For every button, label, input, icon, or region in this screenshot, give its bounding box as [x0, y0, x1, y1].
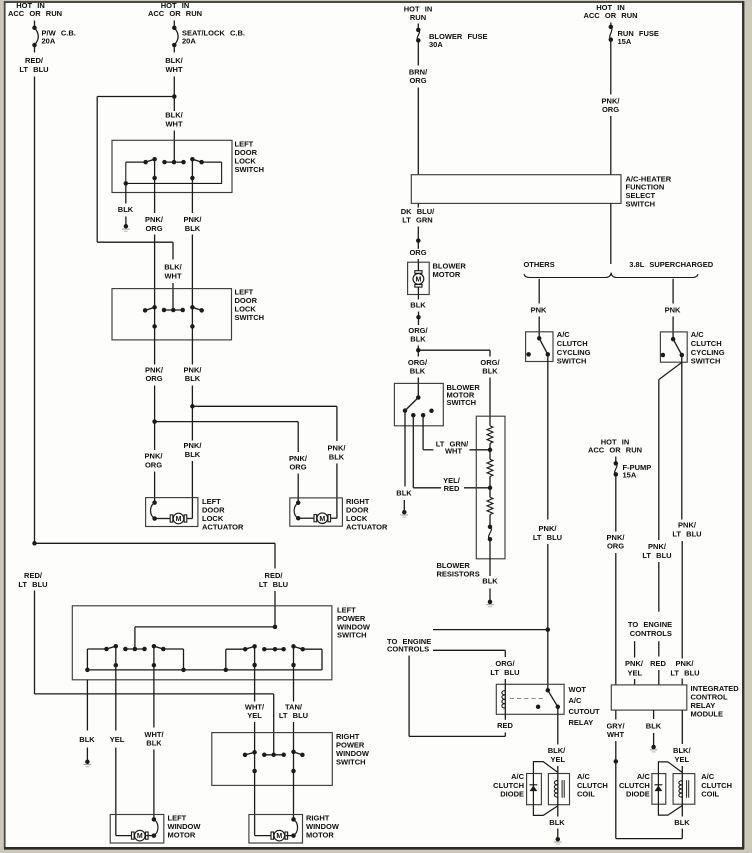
svg-text:LT BLU: LT BLU	[672, 530, 701, 539]
svg-text:PNK/: PNK/	[145, 215, 164, 224]
svg-text:BLK/: BLK/	[165, 111, 183, 120]
wire YEL to left window motor	[110, 680, 125, 836]
fuse BLOWER FUSE 30A	[416, 24, 487, 50]
diode-coil links (left)	[533, 762, 557, 816]
wire PNK/LT BLU from cycling switch	[533, 354, 562, 629]
svg-text:CONTROLS: CONTROLS	[630, 629, 672, 638]
left door lock switch internal frame	[126, 162, 222, 183]
wire PNK/ORG crossover to right actuator	[155, 422, 308, 503]
left assembly contacts	[87, 644, 183, 651]
wire BRN/ORG to function select switch	[409, 40, 428, 174]
left power window switch feed bus	[135, 625, 277, 649]
svg-text:RED: RED	[444, 484, 460, 493]
fuse F-PUMP 15A	[614, 457, 652, 480]
svg-text:CLUTCH: CLUTCH	[691, 339, 722, 348]
WOT relay switch lever	[536, 688, 560, 709]
svg-text:SWITCH: SWITCH	[691, 357, 721, 366]
svg-text:RUN: RUN	[410, 13, 426, 22]
svg-text:PNK/: PNK/	[678, 521, 697, 530]
svg-text:BLK/: BLK/	[548, 746, 566, 755]
svg-text:BLK: BLK	[410, 301, 426, 310]
right window motor M	[255, 817, 298, 841]
svg-text:PNK/: PNK/	[676, 659, 695, 668]
wire PNK/ORG upper-to-lower lock switch	[145, 193, 164, 308]
ground G6 (left clutch coil BLK)	[554, 837, 562, 844]
svg-text:SWITCH: SWITCH	[337, 631, 367, 640]
WOT relay coil	[502, 684, 505, 714]
svg-text:BLK: BLK	[549, 818, 565, 827]
left window motor M	[116, 817, 158, 841]
svg-text:BLK: BLK	[146, 738, 162, 747]
wire PNK/BLK into left actuator	[184, 406, 203, 518]
svg-text:PNK/: PNK/	[648, 542, 667, 551]
wire TAN/LT BLU to right window switch	[279, 680, 308, 752]
wire PNK/LT BLU (3.8L) diagonal branch	[642, 362, 681, 611]
svg-text:RED: RED	[650, 659, 666, 668]
wire PNK/LT BLU (3.8L) straight to module	[670, 355, 701, 685]
svg-text:SWITCH: SWITCH	[626, 200, 656, 209]
svg-text:A/C: A/C	[511, 772, 525, 781]
svg-text:BLK: BLK	[410, 334, 426, 343]
svg-text:ACC OR RUN: ACC OR RUN	[588, 445, 642, 454]
svg-text:MOTOR: MOTOR	[306, 831, 334, 840]
svg-text:3.8L SUPERCHARGED: 3.8L SUPERCHARGED	[629, 260, 713, 269]
svg-text:20A: 20A	[182, 36, 196, 45]
svg-text:ACTUATOR: ACTUATOR	[202, 523, 244, 532]
circuit breaker P/W C.B. 20A	[32, 21, 76, 48]
svg-text:BLK: BLK	[482, 366, 498, 375]
svg-text:BLK: BLK	[185, 374, 201, 383]
svg-text:A/C: A/C	[691, 330, 705, 339]
svg-text:ORG: ORG	[607, 542, 624, 551]
svg-text:DIODE: DIODE	[626, 790, 650, 799]
A/C clutch cycling switch (others) box	[526, 330, 591, 366]
svg-text:BLK: BLK	[118, 205, 134, 214]
left power window switch box	[72, 606, 371, 680]
wire YEL/RED tap	[413, 415, 490, 493]
wire GRY/WHT from module	[606, 710, 625, 761]
thermal limiter	[488, 525, 493, 542]
svg-text:ORG: ORG	[602, 105, 619, 114]
right door lock actuator box	[290, 497, 388, 532]
svg-text:PNK/: PNK/	[184, 441, 203, 450]
left door lock switch (lower) box	[112, 288, 264, 340]
left assembly risers	[87, 646, 183, 680]
svg-text:ORG: ORG	[409, 248, 426, 257]
svg-text:WHT: WHT	[445, 446, 462, 455]
left door lock actuator box	[146, 497, 244, 532]
left door lock switch (upper) box	[112, 140, 264, 193]
svg-text:ACC OR RUN: ACC OR RUN	[8, 9, 62, 18]
wire PNK/ORG to integrated control relay module	[607, 474, 626, 685]
svg-text:LT BLU: LT BLU	[642, 551, 671, 560]
ground G5 (module BLK)	[650, 745, 658, 752]
left door lock actuator motor M	[151, 500, 193, 523]
wire ORG/BLK into blower motor switch	[408, 350, 428, 397]
svg-text:LT BLU: LT BLU	[18, 580, 47, 589]
svg-text:LT BLU: LT BLU	[490, 668, 519, 677]
svg-text:PNK/: PNK/	[328, 444, 347, 453]
svg-text:PNK: PNK	[665, 305, 681, 314]
svg-text:SWITCH: SWITCH	[235, 313, 265, 322]
svg-text:WHT: WHT	[165, 65, 182, 74]
blower motor M	[413, 262, 424, 294]
blower resistor R2	[487, 450, 493, 488]
svg-text:PNK/: PNK/	[184, 365, 203, 374]
splice node GRY/WHT	[614, 759, 619, 764]
left door lock switch (lower) contacts	[143, 305, 204, 313]
diode-coil links (right)	[658, 762, 682, 815]
svg-text:ORG: ORG	[409, 76, 426, 85]
svg-text:WHT: WHT	[164, 271, 181, 280]
svg-text:CYCLING: CYCLING	[691, 348, 725, 357]
wire RED/LT BLU from P/W C.B.	[19, 45, 48, 543]
svg-text:PNK/: PNK/	[607, 533, 626, 542]
right door lock actuator motor M	[294, 501, 337, 524]
blower motor box	[408, 261, 467, 294]
A/C clutch cycling switch (3.8L) box	[660, 330, 724, 366]
blower motor switch box	[394, 383, 480, 426]
wire to right window motor (left)	[254, 785, 256, 835]
node: HOT IN ACC OR RUN feed (fuel pump)	[588, 437, 642, 454]
svg-text:RED: RED	[497, 721, 513, 730]
svg-text:BLK: BLK	[482, 577, 498, 586]
ground G2 (blower switch BLK)	[401, 510, 409, 517]
wire BLK to ground from left clutch coil	[549, 805, 565, 840]
svg-text:ACTUATOR: ACTUATOR	[346, 523, 388, 532]
right assembly contacts	[226, 644, 322, 651]
wire RED/LT BLU down to right power window switch	[35, 591, 274, 755]
wire PNK/LT BLU into WOT relay	[547, 630, 549, 691]
WOT A/C cutout relay box	[496, 684, 600, 727]
wire PNK/ORG below lower lock switch	[145, 340, 164, 422]
wire RED from engine controls to module	[650, 641, 666, 685]
svg-text:BLK/: BLK/	[673, 746, 691, 755]
svg-text:SWITCH: SWITCH	[447, 398, 477, 407]
svg-text:A/C: A/C	[569, 696, 583, 705]
wire ORG/BLK branch to blower resistors	[418, 350, 500, 426]
right window motor box	[249, 814, 340, 844]
fuse RUN FUSE 15A	[609, 23, 659, 47]
svg-text:YEL: YEL	[551, 755, 566, 764]
junction node PNK/ORG crossover	[152, 419, 157, 424]
svg-text:RED/: RED/	[25, 56, 44, 65]
svg-text:M: M	[137, 833, 143, 840]
wire BLK/WHT branch to lower left door lock switch	[97, 97, 182, 311]
wire PNK/BLK below lower lock switch	[184, 340, 203, 406]
A/C clutch coil (right)	[679, 774, 689, 805]
svg-text:WHT: WHT	[165, 119, 182, 128]
node TO ENGINE CONTROLS (right)	[628, 620, 672, 638]
svg-text:BLK: BLK	[396, 488, 412, 497]
svg-text:COIL: COIL	[701, 790, 719, 799]
wire PNK/ORG into left actuator	[145, 422, 164, 503]
svg-text:15A: 15A	[618, 37, 632, 46]
wire BLK to ground from resistors	[482, 539, 498, 602]
svg-text:BLK/: BLK/	[164, 263, 182, 272]
svg-text:PNK: PNK	[531, 305, 547, 314]
svg-text:LT BLU: LT BLU	[533, 533, 562, 542]
wire BLK to ground from window switch	[79, 680, 95, 762]
svg-text:DIODE: DIODE	[500, 790, 524, 799]
svg-text:PNK/: PNK/	[289, 454, 308, 463]
wire PNK to A/C clutch cycling switch (others)	[531, 279, 547, 339]
blower resistor R1	[487, 426, 493, 450]
svg-text:RESISTORS: RESISTORS	[437, 569, 480, 578]
svg-text:BLK: BLK	[410, 366, 426, 375]
svg-text:ORG/: ORG/	[495, 659, 515, 668]
svg-text:ORG: ORG	[289, 463, 306, 472]
WOT relay actuation dashed link	[510, 698, 546, 700]
svg-text:ACC OR RUN: ACC OR RUN	[583, 11, 637, 20]
svg-text:BLK: BLK	[185, 450, 201, 459]
wire BLK/YEL from WOT relay to A/C clutch coil	[548, 707, 566, 774]
svg-text:A/C: A/C	[557, 330, 571, 339]
svg-text:SWITCH: SWITCH	[235, 165, 265, 174]
svg-text:BLK: BLK	[79, 735, 95, 744]
svg-text:ORG: ORG	[145, 374, 162, 383]
tap node LT GRN/WHT	[488, 448, 493, 453]
wire DK BLU/LT GRN from select switch	[401, 203, 435, 240]
left door lock switch wiper stubs	[152, 159, 194, 192]
wire WHT/YEL to right window switch	[245, 680, 265, 753]
right power window switch box	[212, 732, 370, 785]
A/C clutch cycling switch (3.8L) lever	[661, 337, 684, 357]
left window motor box	[110, 814, 201, 844]
wire RED/LT BLU to left power window switch	[35, 543, 289, 627]
junction node BLK/WHT split	[172, 94, 177, 99]
ground G3 (blower resistors BLK)	[486, 600, 494, 607]
wire ORG/LT BLU engine controls to WOT relay coil	[433, 650, 520, 684]
wire PNK to A/C clutch cycling switch (3.8L)	[665, 279, 681, 339]
circuit breaker SEAT/LOCK C.B. 20A	[172, 21, 245, 48]
svg-text:CYCLING: CYCLING	[557, 348, 591, 357]
junction node PNK/BLK crossover	[190, 404, 195, 409]
wire BLK to ground from left door lock switch	[118, 183, 134, 226]
svg-text:15A: 15A	[623, 471, 637, 480]
junction node ORG/BLK split	[416, 348, 421, 353]
svg-text:MOTOR: MOTOR	[433, 270, 461, 279]
wire ORG to blower motor	[409, 241, 426, 263]
A/C clutch coil (right) box	[673, 772, 732, 804]
svg-text:CONTROLS: CONTROLS	[387, 645, 429, 654]
splice node below blower motor	[416, 315, 421, 320]
svg-text:PNK/: PNK/	[539, 524, 558, 533]
tap node YEL/RED	[488, 486, 493, 491]
svg-text:LT BLU: LT BLU	[279, 711, 308, 720]
left door lock switch (lower) wiper stubs	[152, 307, 194, 340]
svg-text:A/C: A/C	[577, 772, 591, 781]
right power window switch contacts	[243, 750, 305, 758]
svg-text:LT BLU: LT BLU	[19, 65, 48, 74]
svg-text:PNK/: PNK/	[184, 215, 203, 224]
wire BLK to ground from module	[646, 710, 662, 747]
wire TO ENGINE CONTROLS tap	[387, 630, 548, 654]
svg-text:RED/: RED/	[265, 571, 284, 580]
wire PNK/ORG to function select switch	[602, 40, 621, 175]
splice node on blower feed	[416, 238, 421, 243]
blower resistor R3	[487, 488, 493, 527]
svg-text:BLK/: BLK/	[165, 56, 183, 65]
junction node PNK/LT BLU / engine controls	[546, 627, 551, 632]
svg-text:M: M	[319, 516, 325, 523]
svg-text:MOTOR: MOTOR	[168, 831, 196, 840]
A/C clutch cycling switch (others) lever	[526, 336, 550, 357]
svg-text:YEL: YEL	[247, 711, 262, 720]
svg-text:WHT: WHT	[607, 730, 624, 739]
wire ORG/BLK to junction	[408, 317, 428, 350]
svg-text:LT BLU: LT BLU	[259, 580, 288, 589]
svg-text:BLK: BLK	[646, 721, 662, 730]
wire BLK below blower motor	[410, 295, 426, 318]
wire RED return to engine controls	[409, 656, 513, 737]
right power window switch risers	[252, 752, 295, 786]
svg-text:TO ENGINE: TO ENGINE	[628, 620, 672, 629]
svg-text:CLUTCH: CLUTCH	[557, 339, 588, 348]
svg-text:ORG: ORG	[145, 460, 162, 469]
svg-text:PNK/: PNK/	[145, 365, 164, 374]
wire LT GRN/WHT tap	[423, 415, 490, 455]
wire RED/LT BLU label (left run)	[18, 571, 47, 589]
right assembly risers	[226, 646, 322, 679]
wire BLK/WHT from SEAT/LOCK C.B.	[165, 45, 183, 97]
svg-text:YEL: YEL	[675, 755, 690, 764]
node: HOT IN RUN feed (blower)	[404, 5, 433, 22]
svg-text:COIL: COIL	[577, 790, 595, 799]
wire BLK to ground from blower switch	[396, 411, 412, 513]
A/C clutch coil (left) box	[548, 772, 607, 805]
A/C-heater function select switch box	[411, 174, 671, 208]
wire BLK/WHT into left door lock switch	[165, 97, 183, 163]
wire from select switch to split	[610, 203, 612, 264]
svg-text:RED/: RED/	[24, 571, 43, 580]
wire PNK/BLK upper-to-lower lock switch	[184, 193, 203, 308]
wire BLK/YEL from module to A/C clutch coil	[673, 710, 691, 774]
svg-text:ACC OR RUN: ACC OR RUN	[148, 9, 202, 18]
svg-text:ORG: ORG	[145, 224, 162, 233]
node: HOT IN ACC OR RUN feed (door locks)	[148, 1, 202, 18]
svg-text:M: M	[176, 516, 182, 523]
blower motor switch lever and contacts	[403, 395, 434, 417]
A/C clutch diode (left)	[530, 774, 538, 805]
svg-text:LT BLU: LT BLU	[670, 668, 699, 677]
A/C clutch diode (right) box	[619, 772, 666, 804]
svg-text:30A: 30A	[429, 40, 443, 49]
svg-text:M: M	[415, 277, 421, 284]
svg-text:MODULE: MODULE	[691, 710, 724, 719]
wire GRY/WHT to clutch coil return	[616, 761, 683, 838]
junction node RED/LT BLU split	[32, 541, 37, 546]
left door lock switch contacts row	[126, 157, 222, 164]
window switch common bus	[85, 668, 322, 673]
svg-text:WOT: WOT	[569, 685, 587, 694]
ground G4 (window switch BLK)	[84, 760, 92, 767]
svg-text:BLK: BLK	[185, 224, 201, 233]
svg-text:CUTOUT: CUTOUT	[569, 707, 601, 716]
svg-text:BLK: BLK	[674, 818, 690, 827]
wire to right window motor (right)	[293, 785, 295, 819]
svg-text:A/C: A/C	[701, 772, 715, 781]
A/C clutch diode (right)	[655, 774, 663, 805]
split brace OTHERS / 3.8L SUPERCHARGED	[523, 260, 713, 277]
A/C clutch coil (left)	[554, 774, 564, 805]
A/C clutch diode (left) box	[493, 772, 541, 805]
node: HOT IN ACC OR RUN feed (A/C)	[583, 3, 637, 20]
svg-text:YEL: YEL	[628, 668, 643, 677]
wire BLK from right clutch coil to return	[674, 804, 690, 838]
svg-text:SWITCH: SWITCH	[557, 357, 587, 366]
node: HOT IN ACC OR RUN feed (power windows)	[8, 1, 62, 18]
svg-text:YEL: YEL	[110, 735, 125, 744]
svg-text:SWITCH: SWITCH	[336, 758, 366, 767]
svg-text:BLK: BLK	[329, 452, 345, 461]
svg-text:M: M	[276, 833, 282, 840]
ground G1 (door lock switch BLK)	[122, 224, 130, 231]
svg-text:20A: 20A	[42, 36, 56, 45]
svg-text:PNK/: PNK/	[145, 452, 164, 461]
junction node at switch frame corner	[124, 181, 129, 186]
svg-text:RELAY: RELAY	[569, 718, 594, 727]
wire WHT/BLK to left window motor	[144, 680, 164, 820]
integrated control relay module box	[611, 684, 739, 719]
wire PNK/BLK crossover to right actuator	[192, 406, 346, 518]
svg-text:LT GRN: LT GRN	[402, 216, 432, 225]
svg-text:PNK/: PNK/	[625, 659, 644, 668]
svg-text:OTHERS: OTHERS	[523, 260, 554, 269]
wire PNK/YEL from engine controls to module	[625, 641, 644, 685]
svg-text:A/C: A/C	[637, 772, 651, 781]
blower resistors box	[437, 416, 506, 578]
